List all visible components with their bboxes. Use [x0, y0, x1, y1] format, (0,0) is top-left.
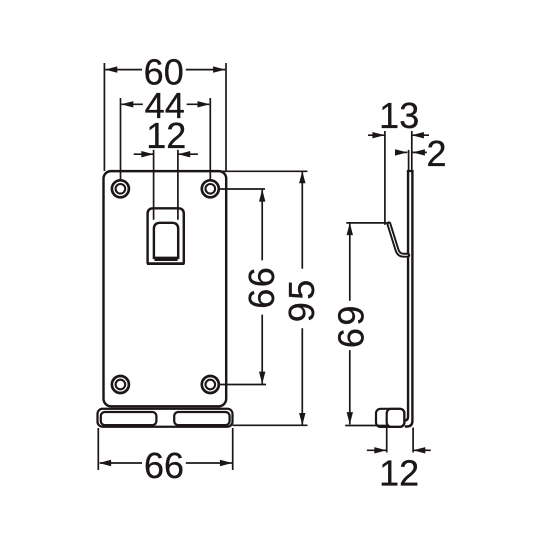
svg-text:69: 69 — [330, 303, 371, 348]
svg-text:66: 66 — [241, 266, 282, 309]
svg-text:12: 12 — [146, 115, 186, 156]
svg-text:13: 13 — [379, 95, 419, 136]
svg-text:95: 95 — [281, 277, 322, 322]
svg-text:66: 66 — [144, 445, 184, 486]
svg-text:2: 2 — [426, 133, 446, 174]
svg-text:12: 12 — [379, 452, 419, 493]
